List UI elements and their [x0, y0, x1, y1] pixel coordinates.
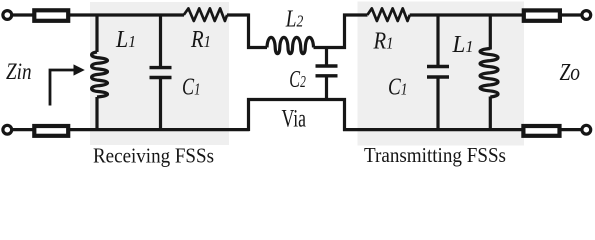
wire: L2 right lead up to top rail toward R1 right [314, 15, 368, 48]
inductor L2 (horizontal coil) [267, 37, 314, 53]
resistor R1 right (zigzag) [367, 8, 409, 21]
wire bottom rail right [343, 128, 581, 131]
wire top rail right: R1 to Zo terminal [410, 13, 581, 16]
port block top-right [524, 10, 560, 20]
terminal bottom-left [3, 125, 12, 134]
receiving FSS shaded region [90, 2, 229, 145]
wire: via link (step up, run, step down) [249, 100, 345, 132]
svg-text:Via: Via [282, 106, 307, 133]
svg-text:Zin: Zin [6, 59, 32, 84]
capacitor C1 left [150, 15, 172, 131]
wire top rail left: R1 right lead to corner [227, 13, 250, 16]
terminal bottom-right [582, 125, 591, 134]
wire top rail left: Zin terminal to R1 left [12, 13, 184, 16]
arrow into Zin [50, 70, 75, 106]
svg-text:Zo: Zo [560, 60, 581, 86]
port block top-left [34, 10, 68, 20]
capacitor C2 [316, 48, 338, 102]
inductor L1 right (vertical coil) [480, 15, 498, 131]
svg-text:Receiving FSSs: Receiving FSSs [93, 144, 214, 168]
port block bottom-right [523, 126, 559, 136]
resistor R1 left (zigzag) [184, 8, 227, 21]
port block bottom-left [34, 126, 68, 136]
transmitting FSS shaded region [358, 2, 525, 146]
inductor L1 left (vertical coil) [92, 15, 108, 131]
terminal top-left [3, 11, 12, 20]
wire bottom rail left [12, 128, 250, 131]
wire: corner down from top rail to L2 left lead [249, 14, 268, 48]
capacitor C1 right [427, 15, 449, 131]
svg-text:Transmitting FSSs: Transmitting FSSs [364, 143, 506, 167]
terminal top-right [582, 11, 591, 20]
